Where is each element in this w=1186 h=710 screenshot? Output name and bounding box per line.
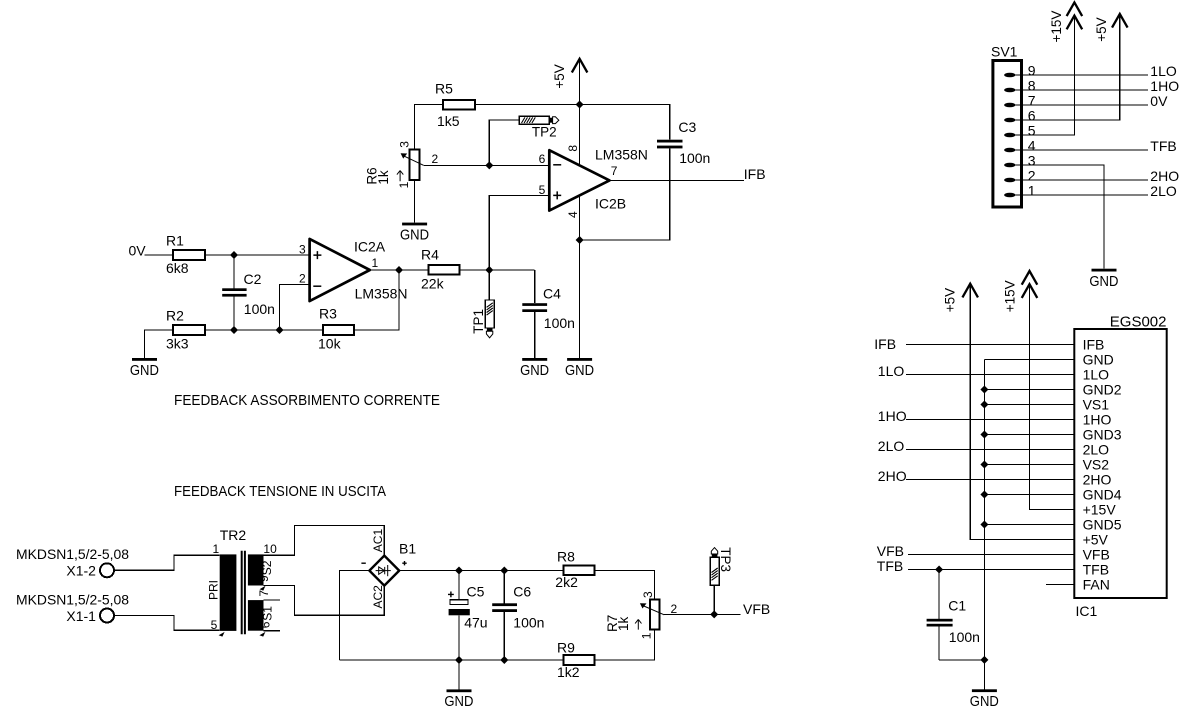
- svg-text:EGS002: EGS002: [1110, 313, 1167, 330]
- svg-text:1: 1: [213, 542, 220, 556]
- svg-text:7: 7: [611, 164, 618, 178]
- wire GND bus vertical: [983, 360, 985, 690]
- wire B1 plus to R8: [399, 570, 564, 572]
- wire GND rail to R9: [339, 659, 563, 661]
- wire VS1 to bus: [984, 404, 1074, 406]
- ground GND (SV1): [1092, 269, 1117, 272]
- transformer TR2: [206, 527, 280, 637]
- wire R1 to IC2A pin3: [205, 254, 310, 256]
- SV1 pin 3 contact: [1004, 163, 1015, 168]
- wire GND2 to bus: [984, 389, 1074, 391]
- svg-text:FAN: FAN: [1083, 577, 1110, 593]
- connector X1-2: [16, 546, 129, 578]
- svg-text:7: 7: [1028, 93, 1036, 109]
- wire VFB to IC1: [908, 554, 1074, 556]
- trimmer R7: [605, 591, 678, 639]
- op-amp IC2B: [539, 145, 648, 218]
- junction GND bus bottom: [980, 656, 988, 664]
- svg-text:2HO: 2HO: [1083, 472, 1112, 488]
- svg-text:0V: 0V: [1150, 93, 1168, 109]
- resistor R4: [429, 265, 460, 275]
- svg-text:S2: S2: [260, 560, 274, 575]
- supply +5V (IC2B): [579, 60, 581, 105]
- svg-text:2k2: 2k2: [555, 574, 578, 590]
- svg-text:100n: 100n: [679, 150, 710, 166]
- supply +15V (IC1): [1022, 284, 1036, 297]
- test point TP1: [471, 270, 494, 338]
- svg-text:X1-1: X1-1: [66, 608, 96, 624]
- wire to IC2A pin2: [280, 285, 310, 330]
- wire 0V to R1: [145, 254, 174, 256]
- svg-text:B1: B1: [399, 541, 416, 557]
- svg-text:C1: C1: [948, 598, 966, 614]
- svg-text:AC1: AC1: [371, 529, 385, 553]
- svg-text:4: 4: [1028, 138, 1036, 154]
- junction IC2A output: [395, 266, 403, 274]
- wire 1LO to IC1: [906, 374, 1074, 376]
- svg-text:3k3: 3k3: [166, 336, 189, 352]
- ground GND (C5): [458, 660, 460, 689]
- bridge rectifier B1: [361, 529, 416, 609]
- svg-text:5: 5: [211, 618, 218, 632]
- svg-text:1HO: 1HO: [1150, 78, 1179, 94]
- svg-text:GND: GND: [130, 363, 159, 379]
- supply +5V (SV1): [1113, 14, 1127, 27]
- svg-text:S1: S1: [260, 606, 274, 621]
- test point TP3: [710, 547, 733, 614]
- svg-text:TR2: TR2: [220, 527, 247, 543]
- svg-text:FEEDBACK TENSIONE IN USCITA: FEEDBACK TENSIONE IN USCITA: [174, 483, 386, 500]
- junction C1 top: [935, 566, 943, 574]
- junction TP3 node: [710, 610, 718, 618]
- svg-text:LM358N: LM358N: [595, 147, 648, 163]
- svg-text:C5: C5: [467, 583, 485, 599]
- svg-text:GND4: GND4: [1083, 487, 1122, 503]
- svg-text:R1: R1: [166, 233, 184, 249]
- SV1 pin 6 contact: [1004, 118, 1015, 123]
- junction C5 bottom: [455, 656, 463, 664]
- svg-text:C4: C4: [543, 285, 561, 301]
- capacitor C5: [448, 571, 488, 661]
- svg-text:5: 5: [539, 183, 546, 197]
- svg-text:VFB: VFB: [877, 543, 904, 559]
- svg-text:1LO: 1LO: [1083, 367, 1110, 383]
- secondary winding S1: [248, 600, 264, 631]
- junction C2 bottom: [230, 326, 238, 334]
- pin 6 stub: [264, 630, 281, 632]
- wire C1 to GND bus: [939, 659, 984, 661]
- SV1 pin 1 contact: [1004, 193, 1015, 198]
- svg-text:R5: R5: [435, 81, 453, 97]
- svg-text:+15V: +15V: [1083, 502, 1117, 518]
- svg-text:C3: C3: [678, 119, 696, 135]
- wire R2 to R3: [205, 329, 323, 331]
- wire GND5 to bus: [984, 524, 1074, 526]
- wire X1-2 to TR2 pin1: [114, 555, 219, 570]
- capacitor C6: [492, 571, 544, 661]
- test point TP2: [489, 116, 559, 165]
- svg-text:1HO: 1HO: [1083, 412, 1112, 428]
- wire R5 to +5V rail: [475, 104, 580, 106]
- wire R7 wiper to VFB: [664, 613, 740, 615]
- resistor R9: [564, 655, 595, 665]
- svg-text:1k2: 1k2: [557, 664, 580, 680]
- svg-text:8: 8: [1028, 78, 1036, 94]
- junction C3 bottom rail: [576, 236, 584, 244]
- wire SV1 pin3 to GND: [1016, 165, 1105, 269]
- wire R9 to R7 pin1: [594, 630, 654, 661]
- wire GND to R2: [145, 330, 174, 358]
- wire TFB to IC1: [908, 569, 1074, 571]
- junction TP2 node: [485, 161, 493, 169]
- svg-text:100n: 100n: [544, 315, 575, 331]
- wire SV1 pin6 to +5V: [1016, 15, 1120, 120]
- wire SV1 pin8 to 1HO: [1016, 89, 1149, 91]
- op-amp IC2A: [299, 238, 408, 301]
- svg-text:1HO: 1HO: [878, 408, 907, 424]
- svg-text:MKDSN1,5/2-5,08: MKDSN1,5/2-5,08: [16, 591, 129, 607]
- wire SV1 pin9 to 1LO: [1016, 74, 1149, 76]
- plus mark (B1): [402, 561, 406, 565]
- wire +5V to IC1: [970, 285, 1074, 540]
- capacitor C2: [233, 255, 235, 288]
- ground GND (IC1): [972, 689, 997, 692]
- wire +5V to IC2B pin8: [579, 105, 581, 166]
- wire GND4 to bus: [984, 494, 1074, 496]
- SV1 pin 2 contact: [1004, 178, 1015, 183]
- svg-text:IC2A: IC2A: [354, 238, 386, 254]
- junction GND5: [980, 521, 988, 529]
- resistor R3: [323, 325, 354, 335]
- svg-text:R3: R3: [319, 306, 337, 322]
- svg-text:6k8: 6k8: [166, 260, 189, 276]
- svg-text:22k: 22k: [421, 276, 445, 292]
- IC IC1 EGS002 body: [1074, 329, 1166, 598]
- svg-text:GND5: GND5: [1083, 517, 1122, 533]
- supply +15V (SV1): [1067, 16, 1081, 29]
- wire IC2A out to R4: [370, 269, 429, 271]
- SV1 pin 8 contact: [1004, 88, 1015, 93]
- svg-text:SV1: SV1: [991, 44, 1018, 60]
- svg-text:2: 2: [299, 272, 306, 286]
- svg-text:X1-2: X1-2: [66, 562, 96, 578]
- svg-text:TP1: TP1: [471, 309, 486, 334]
- svg-text:VS1: VS1: [1083, 397, 1110, 413]
- polarity arrow primary: [219, 632, 225, 637]
- connector X1-1: [16, 591, 129, 624]
- wire R8 to R7 pin3: [594, 571, 654, 600]
- wire B1 minus to GND rail: [339, 571, 369, 660]
- svg-text:TP3: TP3: [718, 547, 733, 572]
- wire +15V to IC1: [1030, 285, 1075, 510]
- svg-text:2: 2: [671, 602, 678, 616]
- junction C5 top: [455, 567, 463, 575]
- svg-text:VFB: VFB: [743, 601, 770, 617]
- svg-text:GND: GND: [565, 363, 594, 379]
- primary winding: [220, 554, 237, 631]
- wire SV1 pin1 to 2LO: [1016, 194, 1149, 196]
- svg-text:TFB: TFB: [1150, 138, 1176, 154]
- svg-text:5: 5: [1028, 123, 1036, 139]
- minus mark (B1): [361, 562, 365, 564]
- svg-text:R4: R4: [421, 246, 439, 262]
- svg-text:2LO: 2LO: [1083, 442, 1110, 458]
- ground GND (R2): [132, 358, 157, 361]
- svg-text:+15V: +15V: [1002, 280, 1017, 312]
- SV1 pin 9 contact: [1004, 73, 1015, 78]
- capacitor C1: [927, 570, 985, 660]
- svg-text:100n: 100n: [513, 615, 544, 631]
- wire R6 wiper to IC2B pin6: [424, 164, 550, 166]
- svg-text:2: 2: [1028, 168, 1036, 184]
- svg-text:C2: C2: [244, 271, 262, 287]
- junction GND4: [980, 491, 988, 499]
- svg-text:IC1: IC1: [1076, 603, 1098, 619]
- svg-text:0V: 0V: [129, 243, 147, 259]
- svg-text:2LO: 2LO: [1150, 183, 1177, 199]
- svg-text:TFB: TFB: [1083, 562, 1109, 578]
- svg-text:+5V: +5V: [942, 288, 957, 312]
- wire TR2 pin10 to B1 AC1: [264, 526, 385, 556]
- wire VS2 to bus: [984, 464, 1074, 466]
- pin 7 stub: [264, 599, 281, 601]
- resistor R2: [173, 325, 205, 335]
- svg-text:R9: R9: [557, 639, 575, 655]
- junction C6 top: [500, 567, 508, 575]
- junction VS2: [980, 461, 988, 469]
- wire GND3 to bus: [984, 434, 1074, 436]
- supply +5V (IC1): [963, 284, 977, 297]
- svg-text:LM358N: LM358N: [355, 286, 408, 302]
- svg-text:2: 2: [432, 152, 439, 166]
- junction VS1: [980, 401, 988, 409]
- svg-text:1: 1: [397, 181, 411, 188]
- junction GND3: [980, 431, 988, 439]
- svg-text:FEEDBACK ASSORBIMENTO CORRENTE: FEEDBACK ASSORBIMENTO CORRENTE: [174, 392, 440, 409]
- svg-text:10: 10: [263, 542, 277, 556]
- secondary winding S2: [248, 554, 264, 585]
- svg-text:VS2: VS2: [1083, 457, 1110, 473]
- svg-text:TFB: TFB: [877, 558, 903, 574]
- svg-text:+5V: +5V: [552, 64, 567, 88]
- svg-text:100n: 100n: [949, 629, 980, 645]
- junction +5V rail: [576, 101, 584, 109]
- svg-text:GND: GND: [400, 228, 429, 244]
- svg-text:9: 9: [1028, 63, 1036, 79]
- svg-text:3: 3: [398, 141, 412, 148]
- svg-text:C6: C6: [513, 583, 531, 599]
- svg-text:GND: GND: [444, 694, 473, 710]
- junction C6 bottom: [500, 656, 508, 664]
- svg-text:IFB: IFB: [1083, 337, 1105, 353]
- svg-text:2HO: 2HO: [878, 468, 907, 484]
- svg-text:IC2B: IC2B: [595, 195, 626, 211]
- svg-text:1LO: 1LO: [878, 363, 905, 379]
- svg-text:1: 1: [640, 632, 654, 639]
- svg-text:AC2: AC2: [371, 585, 385, 609]
- svg-text:1LO: 1LO: [1150, 63, 1177, 79]
- wire SV1 pin7 to 0V: [1016, 104, 1149, 106]
- svg-text:GND: GND: [1083, 352, 1114, 368]
- ground GND (C4): [522, 358, 547, 361]
- wire +5V rail to C3: [580, 105, 670, 140]
- core: [241, 551, 243, 635]
- svg-text:+5V: +5V: [1094, 17, 1109, 41]
- svg-text:GND: GND: [520, 363, 549, 379]
- svg-text:6: 6: [539, 152, 546, 166]
- svg-text:3: 3: [1028, 153, 1036, 169]
- wire SV1 pin5 to +15V: [1016, 17, 1075, 135]
- wire 2HO to IC1: [906, 479, 1074, 481]
- svg-text:4: 4: [566, 211, 580, 218]
- wire R3 to IC2A output: [354, 270, 399, 330]
- svg-text:+15V: +15V: [1049, 11, 1064, 43]
- svg-text:7: 7: [257, 590, 271, 597]
- ground GND (R6): [414, 180, 416, 222]
- junction R1/C2 node: [230, 251, 238, 259]
- junction pin2 node: [276, 326, 284, 334]
- svg-text:PRI: PRI: [206, 580, 220, 600]
- svg-text:6: 6: [258, 621, 272, 628]
- svg-text:100n: 100n: [244, 301, 275, 317]
- wire IFB to IC1: [906, 344, 1074, 346]
- svg-text:IFB: IFB: [744, 166, 766, 182]
- svg-text:9: 9: [257, 575, 271, 582]
- svg-text:1k5: 1k5: [437, 113, 460, 129]
- svg-text:1k: 1k: [616, 616, 631, 631]
- svg-text:2HO: 2HO: [1150, 168, 1179, 184]
- svg-text:3: 3: [641, 591, 655, 598]
- SV1 body: [993, 61, 1022, 208]
- wire R4 to C4: [460, 269, 535, 271]
- svg-text:R2: R2: [166, 308, 184, 324]
- wire node to IC2B pin5: [489, 195, 549, 270]
- capacitor C4: [534, 270, 536, 303]
- wire 1HO to IC1: [906, 419, 1074, 421]
- wire SV1 pin2 to 2HO: [1016, 179, 1149, 181]
- svg-text:GND3: GND3: [1083, 427, 1122, 443]
- wire IC1 GND pin to bus: [984, 359, 1074, 361]
- wire 2LO to IC1: [906, 449, 1074, 451]
- resistor R1: [173, 250, 205, 260]
- polarity arrow pin9: [260, 586, 266, 591]
- svg-text:IFB: IFB: [874, 336, 896, 352]
- svg-text:3: 3: [299, 243, 306, 257]
- SV1 pin 4 contact: [1004, 148, 1015, 153]
- junction GND2: [980, 386, 988, 394]
- SV1 pin 5 contact: [1004, 133, 1015, 138]
- svg-text:+5V: +5V: [1083, 532, 1109, 548]
- polarity arrow S1: [259, 632, 265, 637]
- svg-text:6: 6: [1028, 108, 1036, 124]
- svg-text:R8: R8: [557, 548, 575, 564]
- wire IC2B out to IFB: [610, 179, 745, 181]
- ground GND (IC2B): [567, 358, 592, 361]
- wire R6 to R5: [415, 105, 443, 150]
- resistor R8: [564, 566, 595, 576]
- svg-text:GND: GND: [970, 694, 999, 710]
- wire X1-1 to TR2 pin5: [114, 616, 219, 631]
- svg-text:MKDSN1,5/2-5,08: MKDSN1,5/2-5,08: [16, 546, 129, 562]
- wire SV1 pin4 to TFB: [1016, 149, 1149, 151]
- svg-text:10k: 10k: [318, 336, 342, 352]
- capacitor C3: [657, 140, 683, 143]
- SV1 pin 7 contact: [1004, 103, 1015, 108]
- svg-text:47u: 47u: [464, 615, 487, 631]
- FAN stub: [1046, 584, 1074, 586]
- connector SV1: [991, 44, 1036, 207]
- svg-text:GND2: GND2: [1083, 382, 1122, 398]
- svg-text:TP2: TP2: [532, 125, 557, 140]
- trimmer R6: [365, 141, 439, 189]
- wire IC2B pin4 to GND: [579, 196, 581, 358]
- wire TR2 pin9 to B1 AC2: [264, 586, 385, 616]
- wire C3 to GND net: [580, 148, 670, 240]
- resistor R5: [443, 100, 475, 109]
- svg-text:GND: GND: [1089, 274, 1118, 290]
- svg-text:1k: 1k: [376, 170, 391, 185]
- junction R4/TP1/C4 node: [485, 266, 493, 274]
- svg-text:VFB: VFB: [1083, 547, 1110, 563]
- svg-text:2LO: 2LO: [878, 438, 905, 454]
- svg-text:1: 1: [372, 256, 379, 270]
- svg-text:1: 1: [1028, 183, 1036, 199]
- svg-text:8: 8: [566, 145, 580, 152]
